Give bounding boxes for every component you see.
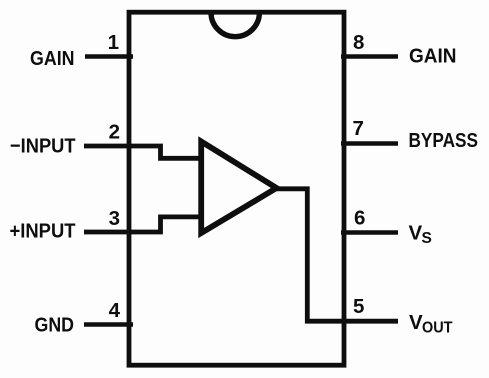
svg-text:BYPASS: BYPASS bbox=[409, 129, 479, 152]
svg-text:8: 8 bbox=[353, 31, 364, 54]
svg-text:4: 4 bbox=[109, 299, 121, 322]
svg-text:3: 3 bbox=[109, 207, 120, 230]
svg-text:S: S bbox=[422, 230, 432, 247]
svg-text:GAIN: GAIN bbox=[409, 45, 457, 68]
svg-text:OUT: OUT bbox=[422, 320, 453, 337]
svg-text:V: V bbox=[409, 222, 423, 245]
svg-text:1: 1 bbox=[108, 31, 119, 54]
svg-text:GAIN: GAIN bbox=[30, 47, 75, 70]
svg-text:GND: GND bbox=[35, 314, 75, 337]
svg-text:6: 6 bbox=[354, 207, 365, 230]
svg-text:−INPUT: −INPUT bbox=[10, 135, 76, 158]
svg-text:5: 5 bbox=[353, 295, 364, 318]
svg-text:7: 7 bbox=[353, 117, 364, 140]
svg-text:V: V bbox=[409, 311, 423, 334]
svg-text:2: 2 bbox=[109, 121, 120, 144]
svg-text:+INPUT: +INPUT bbox=[10, 220, 76, 243]
